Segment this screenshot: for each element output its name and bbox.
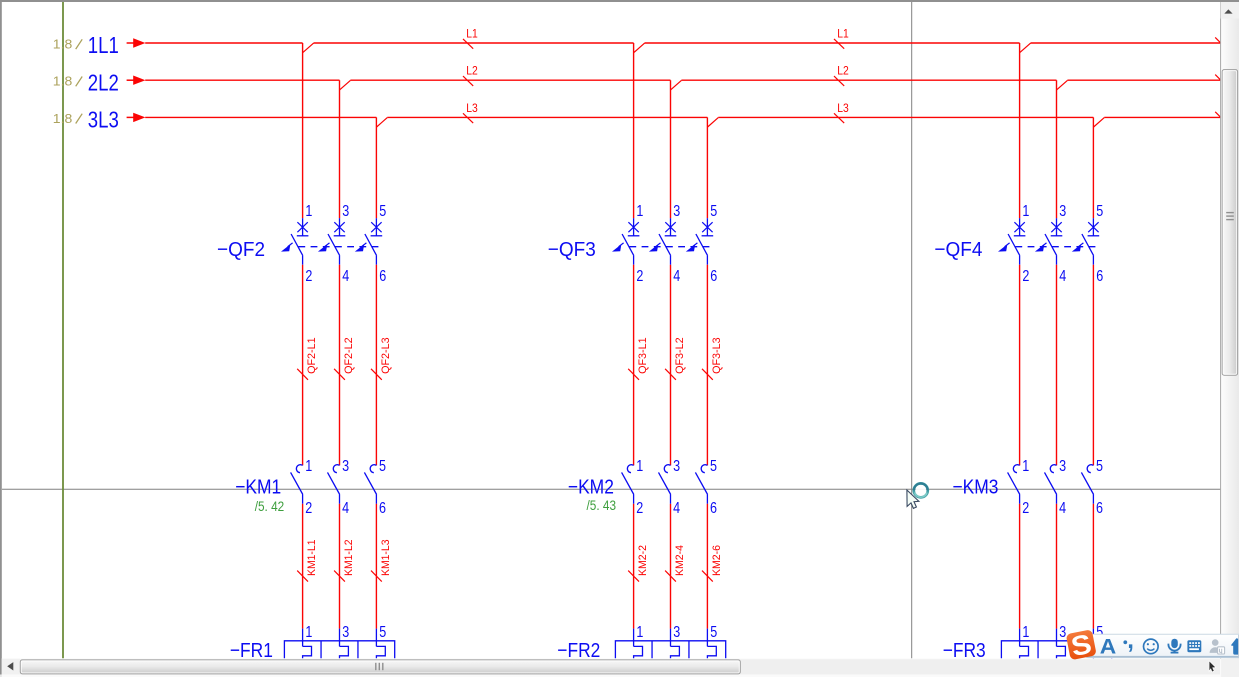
svg-text:6: 6	[379, 268, 386, 285]
svg-text:1: 1	[636, 458, 643, 475]
svg-text:2: 2	[636, 268, 643, 285]
svg-text:5: 5	[379, 624, 386, 641]
svg-text:6: 6	[1096, 500, 1103, 517]
svg-text:1: 1	[636, 203, 643, 220]
svg-text:4: 4	[342, 268, 349, 285]
svg-text:5: 5	[710, 458, 717, 475]
svg-text:1L1: 1L1	[88, 32, 119, 58]
svg-text:L3: L3	[837, 101, 849, 115]
svg-text:3: 3	[342, 458, 349, 475]
svg-text:L3: L3	[466, 101, 478, 115]
svg-text:L1: L1	[837, 26, 849, 40]
svg-text:KM1-L2: KM1-L2	[343, 540, 355, 577]
svg-text:/5. 43: /5. 43	[587, 498, 617, 513]
svg-text:3: 3	[673, 624, 680, 641]
svg-text:1.8: 1.8	[53, 37, 73, 51]
svg-text:KM2-4: KM2-4	[674, 545, 686, 576]
svg-text:QF3-L1: QF3-L1	[637, 337, 649, 374]
svg-text:−QF4: −QF4	[934, 238, 982, 261]
svg-text:1: 1	[636, 624, 643, 641]
svg-text:6: 6	[710, 268, 717, 285]
svg-text:2: 2	[1022, 268, 1029, 285]
svg-text:6: 6	[379, 500, 386, 517]
svg-text:2L2: 2L2	[88, 69, 119, 95]
svg-text:5: 5	[379, 458, 386, 475]
svg-text:5: 5	[1096, 203, 1103, 220]
svg-text:−QF2: −QF2	[217, 238, 265, 261]
svg-text:L2: L2	[466, 64, 478, 78]
svg-text:5: 5	[710, 624, 717, 641]
svg-text:/5. 42: /5. 42	[255, 499, 285, 514]
svg-text:3: 3	[1059, 458, 1066, 475]
svg-text:1: 1	[305, 624, 312, 641]
svg-text:QF2-L2: QF2-L2	[343, 337, 355, 374]
svg-text:L2: L2	[837, 64, 849, 78]
svg-text:QF3-L3: QF3-L3	[711, 337, 723, 374]
svg-text:1: 1	[1022, 624, 1029, 641]
svg-text:3L3: 3L3	[88, 107, 119, 133]
svg-text:3: 3	[673, 203, 680, 220]
svg-text:1.8: 1.8	[53, 75, 73, 89]
svg-text:4: 4	[1059, 268, 1066, 285]
svg-text:3: 3	[342, 203, 349, 220]
svg-text:5: 5	[1096, 458, 1103, 475]
svg-text:4: 4	[1059, 500, 1066, 517]
svg-text:1: 1	[305, 458, 312, 475]
svg-text:6: 6	[710, 500, 717, 517]
svg-text:6: 6	[1096, 268, 1103, 285]
svg-text:2: 2	[636, 500, 643, 517]
svg-text:1.8: 1.8	[53, 112, 73, 126]
svg-text:,: ,	[1127, 627, 1134, 654]
svg-text:1: 1	[1022, 203, 1029, 220]
svg-text:A: A	[1100, 636, 1117, 659]
svg-text:4: 4	[673, 500, 680, 517]
svg-text:KM1-L1: KM1-L1	[306, 540, 318, 577]
svg-text:3: 3	[1059, 624, 1066, 641]
svg-text:KM2-2: KM2-2	[637, 545, 649, 576]
svg-text:L1: L1	[466, 26, 478, 40]
svg-text:5: 5	[710, 203, 717, 220]
svg-text:3: 3	[342, 624, 349, 641]
svg-text:2: 2	[305, 500, 312, 517]
svg-text:3: 3	[1059, 203, 1066, 220]
svg-text:2: 2	[305, 268, 312, 285]
svg-text:KM2-6: KM2-6	[711, 545, 723, 576]
svg-text:KM1-L3: KM1-L3	[380, 540, 392, 577]
svg-text:QF2-L3: QF2-L3	[380, 337, 392, 374]
svg-text:5: 5	[379, 203, 386, 220]
svg-text:QF2-L1: QF2-L1	[306, 337, 318, 374]
svg-text:4: 4	[342, 500, 349, 517]
svg-text:1: 1	[305, 203, 312, 220]
svg-text:−KM2: −KM2	[568, 475, 614, 498]
svg-text:−QF3: −QF3	[548, 238, 596, 261]
svg-text:−KM3: −KM3	[953, 475, 999, 498]
svg-text:−KM1: −KM1	[235, 475, 281, 498]
svg-text:2: 2	[1022, 500, 1029, 517]
svg-text:3: 3	[673, 458, 680, 475]
svg-text:1: 1	[1022, 458, 1029, 475]
svg-text:4: 4	[673, 268, 680, 285]
svg-text:QF3-L2: QF3-L2	[674, 337, 686, 374]
